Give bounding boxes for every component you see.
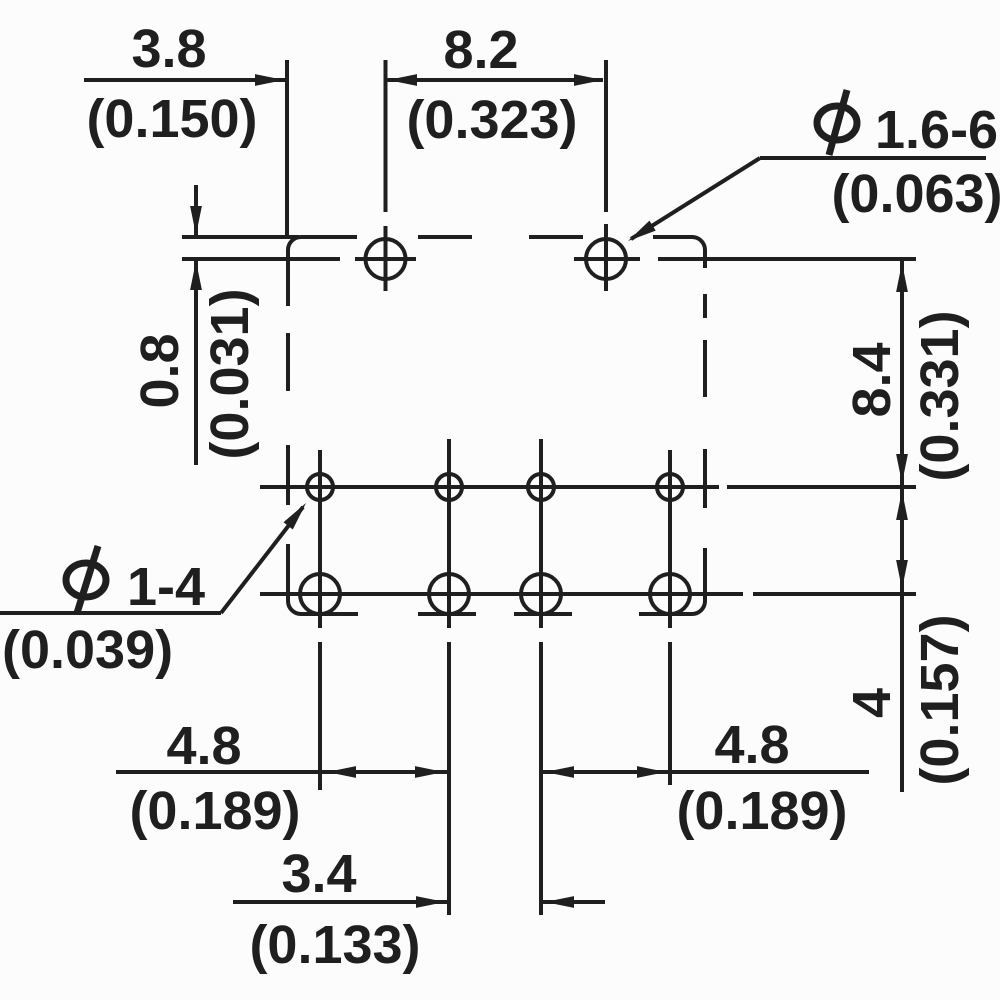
- body outline bottom edge dashes: [639, 612, 692, 616]
- svg-text:1.6-6: 1.6-6: [875, 100, 998, 160]
- leader line phi 1.6-6 diagonal: [631, 158, 760, 239]
- svg-text:4.8: 4.8: [714, 715, 789, 775]
- column centerline B lower: [447, 642, 451, 915]
- svg-text:8.2: 8.2: [443, 20, 518, 80]
- hole H2 circle: [586, 239, 626, 279]
- arrow 4.8L left: [327, 766, 356, 778]
- phi symbol bottom left: [66, 563, 106, 597]
- column centerline C upper: [539, 439, 543, 628]
- arrow 4 down: [896, 560, 908, 589]
- big hole B1: [300, 574, 340, 614]
- body outline bottom-left corner: [288, 601, 301, 614]
- arrow 4.8R right: [637, 766, 666, 778]
- arrow leader 1-4: [283, 499, 310, 529]
- svg-text:(0.157): (0.157): [910, 614, 970, 785]
- body outline bottom-right corner: [692, 601, 705, 614]
- small hole S2: [436, 474, 462, 500]
- right dimension line x=902: [900, 261, 904, 792]
- column centerline C lower: [539, 642, 543, 915]
- svg-text:8.4: 8.4: [842, 342, 902, 417]
- small hole S1: [307, 474, 333, 500]
- body outline right edge dashes: [703, 250, 707, 268]
- dimension line 8.2: [387, 78, 603, 82]
- arrow 8.2 left: [388, 74, 417, 86]
- small hole S4: [657, 474, 683, 500]
- big row centerline y=593: [260, 592, 743, 596]
- leader line phi 1-4 horizontal: [0, 611, 221, 615]
- svg-text:(0.039): (0.039): [2, 620, 173, 680]
- column centerline D upper: [668, 450, 672, 628]
- column centerline B upper: [447, 439, 451, 628]
- dimension line 3.8: [84, 78, 285, 82]
- small row centerline extension right: [727, 485, 916, 489]
- svg-text:3.4: 3.4: [281, 844, 356, 904]
- hole H1 circle: [366, 239, 406, 279]
- leader line phi 1-4 diagonal: [221, 507, 303, 613]
- extension line hole2 top x=606: [604, 60, 608, 212]
- small row centerline y=487: [260, 485, 719, 489]
- svg-text:(0.150): (0.150): [86, 89, 257, 149]
- big hole B2: [429, 574, 469, 614]
- svg-text:(0.189): (0.189): [129, 781, 300, 841]
- big hole B4: [650, 574, 690, 614]
- small hole S3: [528, 474, 554, 500]
- big hole B3: [521, 574, 561, 614]
- hole H1 crosshair horizontal: [355, 257, 416, 261]
- svg-text:(0.063): (0.063): [831, 164, 1000, 224]
- top row centerline right y=259: [658, 257, 916, 261]
- body outline top-left corner: [288, 237, 301, 250]
- body outline left edge dashes: [286, 250, 290, 306]
- hole H2 crosshair vertical: [604, 224, 608, 291]
- arrow 3.4 left: [545, 896, 574, 908]
- leader line phi 1.6-6 horizontal: [760, 156, 986, 160]
- arrow 3.8 right: [255, 74, 284, 86]
- column centerline A upper: [318, 450, 322, 628]
- svg-text:(0.189): (0.189): [676, 781, 847, 841]
- svg-text:(0.031): (0.031): [200, 288, 260, 459]
- arrow 4 up: [896, 491, 908, 520]
- svg-text:3.8: 3.8: [131, 19, 206, 79]
- arrow 8.4 down: [896, 454, 908, 483]
- svg-text:4.8: 4.8: [166, 716, 241, 776]
- big row centerline extension right: [753, 592, 916, 596]
- hole H1 crosshair vertical: [384, 226, 388, 291]
- svg-text:4: 4: [842, 688, 902, 718]
- dimension line 4.8 left y=772: [116, 770, 449, 774]
- dimension line 0.8 lower x=196: [194, 259, 198, 465]
- arrow 4.8R left: [545, 766, 574, 778]
- svg-text:(0.133): (0.133): [249, 915, 420, 975]
- hole H2 crosshair horizontal: [574, 257, 640, 261]
- arrow 8.2 right: [574, 74, 603, 86]
- dimension line 3.4 left piece y=902: [233, 900, 449, 904]
- extension line hole1 top x=385: [384, 60, 388, 212]
- column centerline D lower: [668, 642, 672, 785]
- extension line body-left-edge top x=287: [285, 60, 289, 237]
- top row centerline left y=259: [182, 257, 340, 261]
- dimension line 3.4 right piece y=902: [541, 900, 605, 904]
- arrow 0.8 up: [190, 261, 202, 290]
- svg-text:(0.323): (0.323): [406, 90, 577, 150]
- arrow 4.8L right: [415, 766, 444, 778]
- arrow 3.4 right: [416, 896, 445, 908]
- dimension line 4.8 right y=772: [541, 770, 869, 774]
- body outline top edge dashes: [301, 235, 357, 239]
- arrow 0.8 down: [190, 206, 202, 235]
- phi symbol top right: [817, 106, 857, 140]
- svg-text:0.8: 0.8: [130, 333, 190, 408]
- dimension line 0.8 upper x=196: [194, 185, 198, 237]
- body outline top-right corner: [692, 237, 705, 250]
- column centerline A lower: [318, 642, 322, 790]
- arrow leader 1.6-6: [625, 221, 656, 246]
- extension line y=237 for 0.8 dim: [182, 235, 299, 239]
- svg-text:1-4: 1-4: [127, 557, 205, 617]
- arrow 8.4 up: [896, 263, 908, 292]
- svg-text:(0.331): (0.331): [910, 310, 970, 481]
